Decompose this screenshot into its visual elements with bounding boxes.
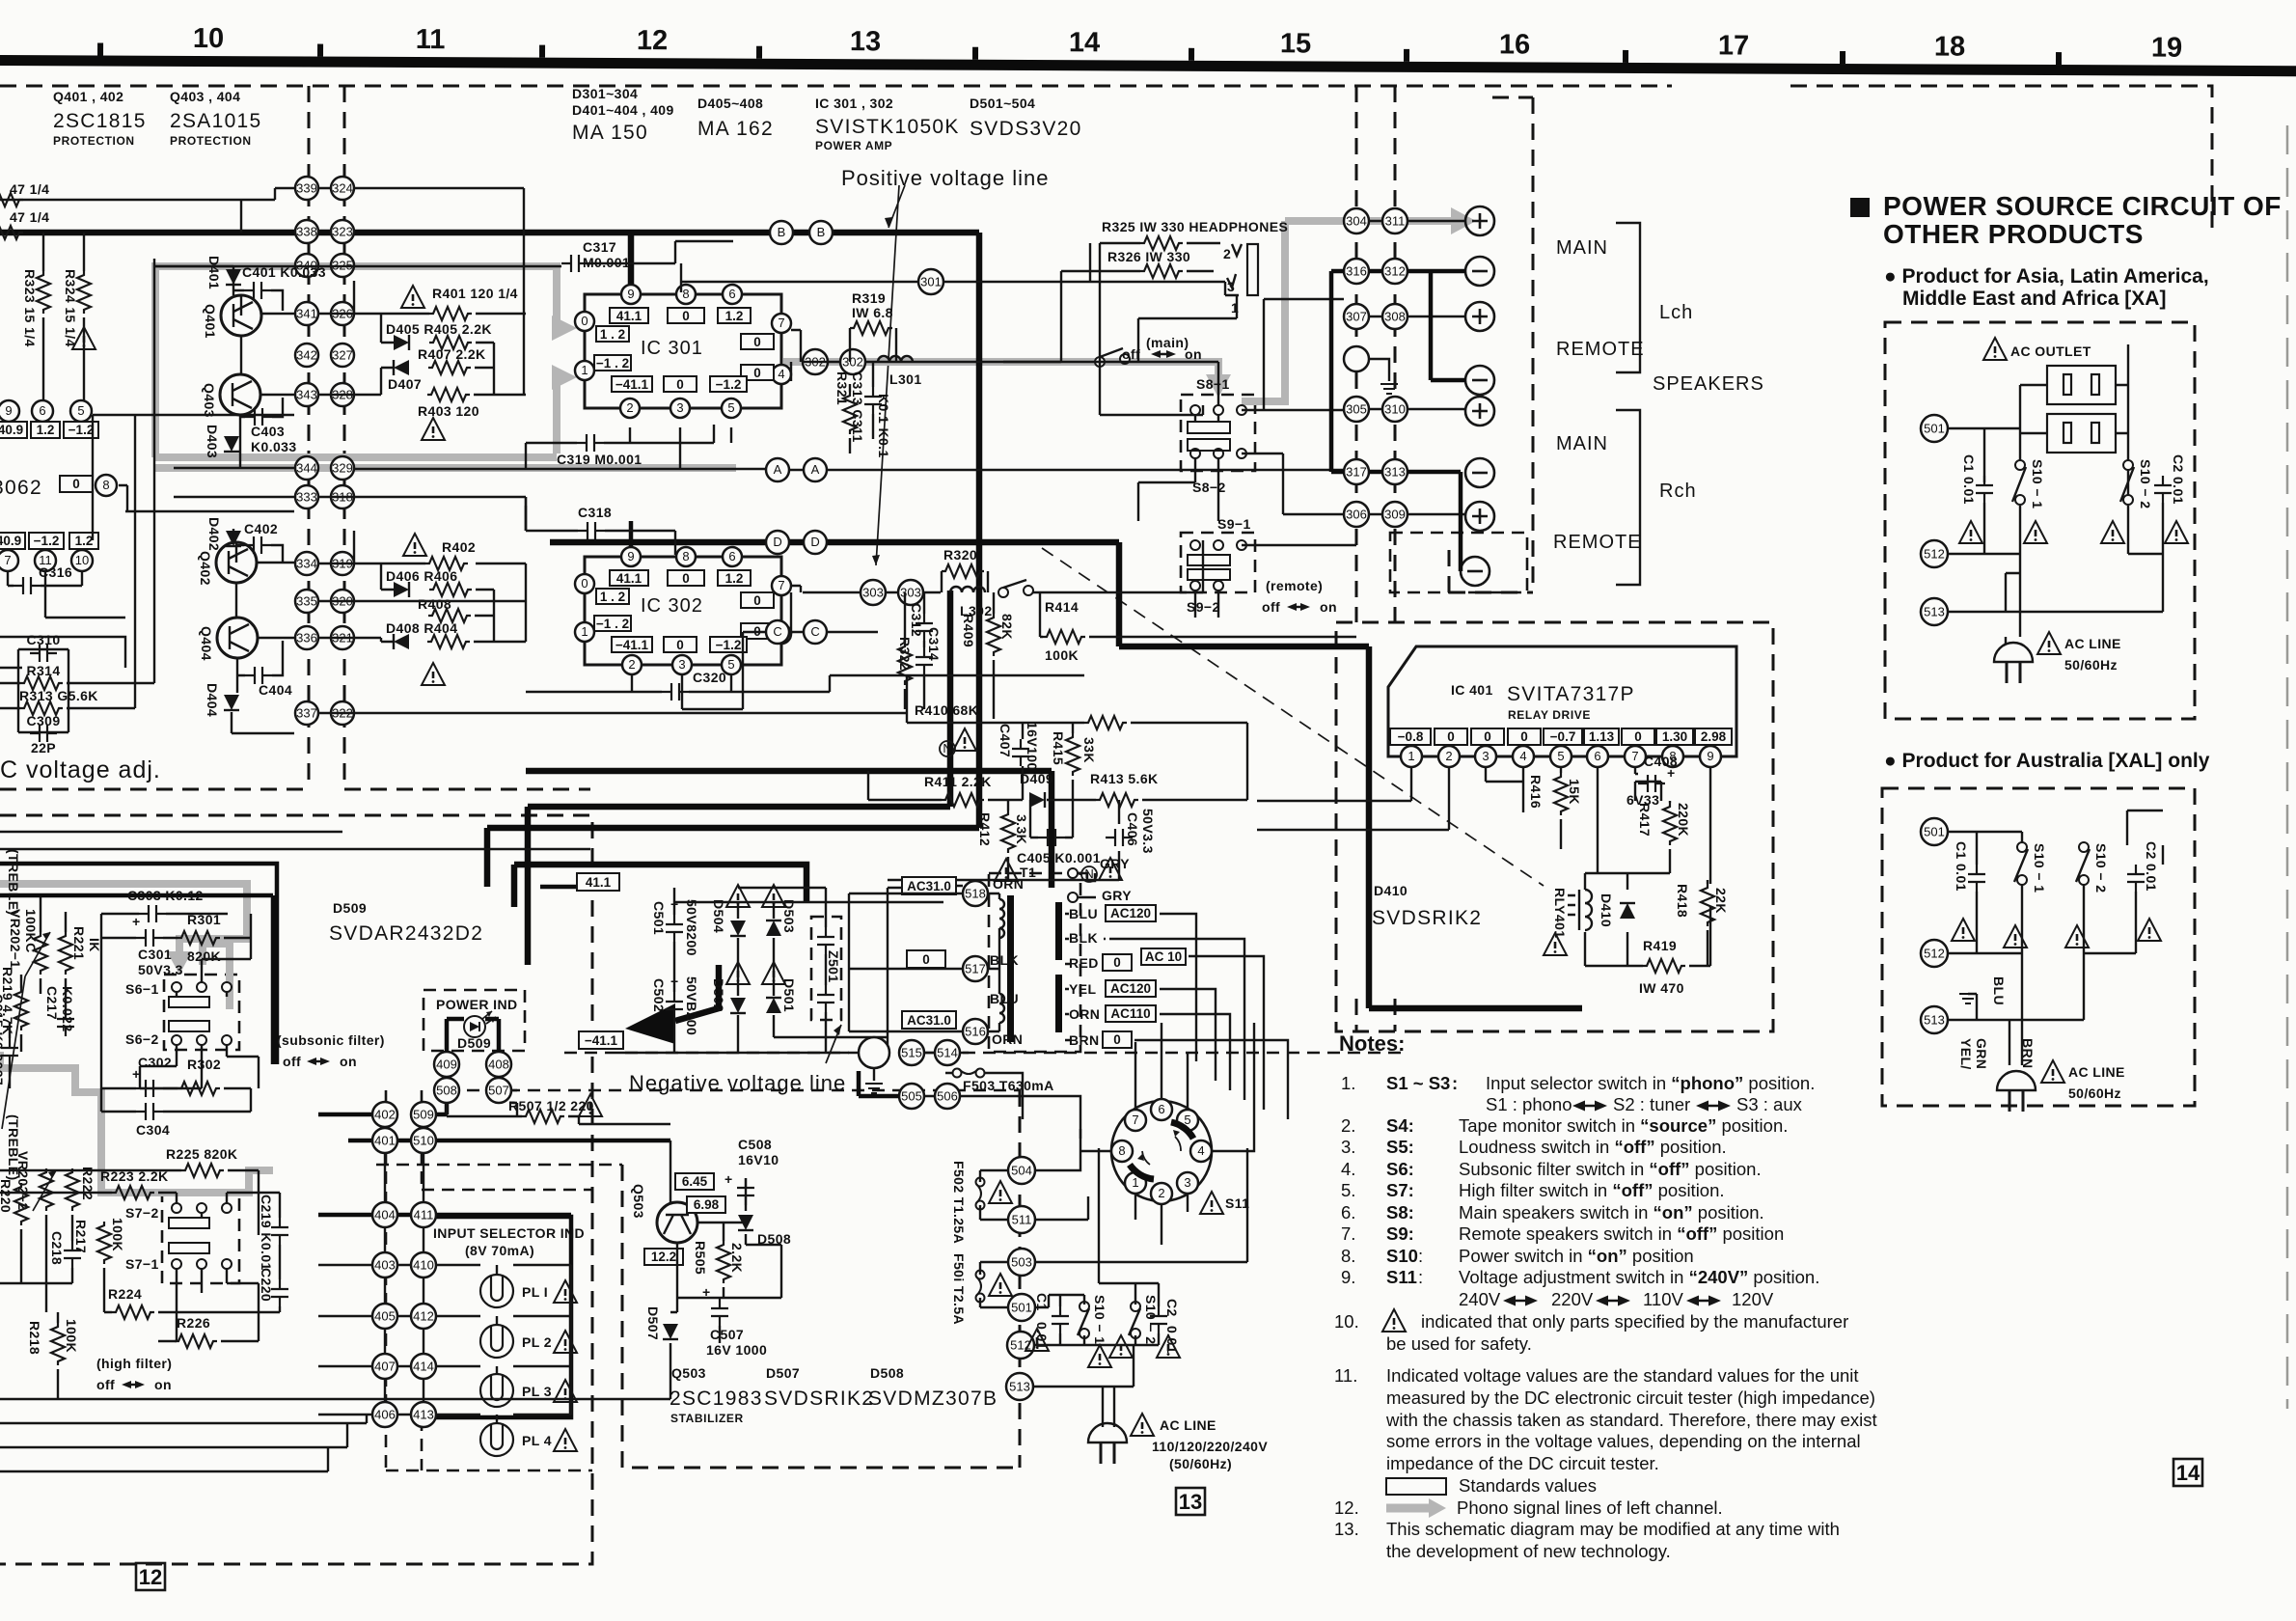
boxed -41.1 xyxy=(612,637,652,652)
dashed power supply block left/bottom xyxy=(622,1165,1020,1468)
svg-text:R409: R409 xyxy=(961,614,976,647)
svg-text:339: 339 xyxy=(296,181,317,196)
node 517 xyxy=(963,956,988,981)
svg-text:S10 − 2: S10 − 2 xyxy=(1143,1295,1159,1344)
node 412 xyxy=(411,1304,436,1329)
svg-text:● Product for Asia, Latin Amer: ● Product for Asia, Latin America, xyxy=(1884,265,2209,288)
svg-text:9: 9 xyxy=(627,287,634,301)
svg-text:6.: 6. xyxy=(1341,1202,1355,1223)
svg-text:+: + xyxy=(132,914,141,929)
resistor R405 xyxy=(429,336,472,349)
pin 1 xyxy=(1401,746,1422,767)
svg-text:Rch: Rch xyxy=(1659,481,1697,502)
svg-text:(remote): (remote) xyxy=(1266,578,1323,593)
ground xal xyxy=(1968,994,1977,1020)
lamp PL4 xyxy=(480,1423,552,1456)
boxed 41.1 xyxy=(577,873,619,891)
wires fuse column xyxy=(980,1129,1247,1307)
svg-text:338: 338 xyxy=(296,225,317,239)
svg-text:303: 303 xyxy=(862,586,884,600)
diode D501 xyxy=(766,978,797,1013)
resistor R226 xyxy=(175,1315,217,1348)
boxed AC31.0 b xyxy=(902,1011,956,1029)
bracket Rch xyxy=(1616,410,1640,585)
thick 41.1 stub xyxy=(540,885,617,890)
warning D501 xyxy=(762,962,785,984)
wires secondary to selector xyxy=(1065,914,1288,1119)
transformer T1 windings xyxy=(990,876,1062,1047)
node 303b xyxy=(898,580,923,605)
svg-text:S11: S11 xyxy=(1225,1195,1249,1211)
svg-text:3.3K: 3.3K xyxy=(1014,814,1029,844)
capacitor C218 xyxy=(49,1231,81,1268)
svg-text:Q503: Q503 xyxy=(671,1365,706,1381)
svg-text:C302: C302 xyxy=(138,1055,172,1070)
resistor R413 xyxy=(1090,771,1159,807)
svg-text:YEL/: YEL/ xyxy=(1958,1038,1974,1070)
svg-text:B: B xyxy=(817,225,826,239)
capacitor C401 xyxy=(242,264,326,299)
warning PL3 xyxy=(554,1380,577,1402)
svg-text:S6−2: S6−2 xyxy=(125,1031,159,1047)
node 303 xyxy=(861,580,886,605)
svg-text:AC120: AC120 xyxy=(1110,906,1151,920)
svg-text:R221: R221 xyxy=(71,926,87,960)
capacitor C318 xyxy=(578,505,612,539)
minus terminal Lch main xyxy=(1465,257,1494,286)
svg-text:0: 0 xyxy=(753,366,761,380)
node 503 xyxy=(1008,1249,1035,1276)
switch S10-1 xa xyxy=(2012,459,2045,508)
svg-text:D401~404 , 409: D401~404 , 409 xyxy=(572,102,674,118)
switch S7-2 contacts xyxy=(169,1203,232,1228)
resistor R403 xyxy=(418,388,479,419)
svg-text:7.: 7. xyxy=(1341,1223,1355,1244)
svg-text:Q403 , 404: Q403 , 404 xyxy=(170,89,240,104)
wire 301 row xyxy=(681,243,1239,295)
svg-text:GRN: GRN xyxy=(1974,1038,1989,1069)
svg-text:D407: D407 xyxy=(388,376,422,392)
svg-text:501: 501 xyxy=(1011,1301,1032,1315)
svg-text:R407 2.2K: R407 2.2K xyxy=(418,346,486,362)
wires 505 row xyxy=(859,1071,899,1096)
plus terminal Lch main xyxy=(1465,206,1494,235)
note warning triangle xyxy=(1382,1309,1406,1332)
svg-text:R313 G5.6K: R313 G5.6K xyxy=(19,688,98,703)
svg-text:MAIN: MAIN xyxy=(1556,237,1608,259)
svg-text:GRY: GRY xyxy=(1100,856,1130,871)
svg-text:C501: C501 xyxy=(651,901,667,935)
pin 6 xyxy=(723,285,742,304)
pins row circles 9 6 5 xyxy=(0,400,19,422)
resistor R414 xyxy=(1043,599,1085,663)
node 322 xyxy=(331,701,354,725)
svg-text:344: 344 xyxy=(296,461,317,476)
node 302b xyxy=(840,349,865,374)
node 514 xyxy=(935,1040,960,1065)
wire left top xyxy=(0,188,296,411)
boxed 0 bottom xyxy=(664,376,697,392)
thick feed to IC302 pin9 xyxy=(629,521,634,555)
dashed box input selector indicator xyxy=(386,1190,592,1470)
svg-text:4.: 4. xyxy=(1341,1159,1355,1179)
svg-text:R402: R402 xyxy=(442,539,476,555)
svg-text:50V3.3: 50V3.3 xyxy=(1140,809,1156,854)
RC block C310 R314 R313 C309 xyxy=(18,632,98,756)
thick negative nest mid xyxy=(487,825,979,832)
svg-text:C320: C320 xyxy=(693,670,726,685)
pointer negative xyxy=(826,1025,841,1063)
svg-text:C507: C507 xyxy=(710,1327,744,1342)
dashed vertical speaker block inner xyxy=(1449,97,1533,592)
svg-text:16V10: 16V10 xyxy=(738,1152,779,1168)
svg-text:PL 4: PL 4 xyxy=(522,1433,552,1448)
svg-text:MAIN: MAIN xyxy=(1556,433,1608,454)
svg-text:3: 3 xyxy=(678,657,685,672)
boxed 0 xyxy=(668,570,704,586)
warning AC OUTLET xyxy=(1983,338,2007,360)
phono arrow into IC301 pin0 xyxy=(552,316,577,341)
pin 6 xyxy=(723,547,742,566)
capacitor C406 xyxy=(1106,809,1156,854)
resistor R301 xyxy=(178,912,221,964)
svg-text:Indicated voltage values are t: Indicated voltage values are the standar… xyxy=(1386,1365,1859,1386)
svg-text:100K: 100K xyxy=(110,1218,125,1251)
svg-text:317: 317 xyxy=(1346,465,1367,480)
svg-text:10: 10 xyxy=(193,23,224,54)
switch S7-1 contacts xyxy=(169,1243,232,1269)
node 313 xyxy=(1382,459,1408,484)
remote switch contacts xyxy=(998,580,1033,597)
boxed 41.1 xyxy=(610,308,648,323)
svg-text:D507: D507 xyxy=(645,1306,661,1340)
svg-text:D: D xyxy=(810,535,819,549)
thick negative nest inner xyxy=(514,865,806,902)
svg-text:C: C xyxy=(810,624,819,639)
warning PL2 xyxy=(554,1331,577,1353)
capacitor C302 xyxy=(132,1055,172,1097)
svg-text:404: 404 xyxy=(374,1208,396,1223)
wire C319 row xyxy=(526,425,731,470)
svg-text:6.98: 6.98 xyxy=(694,1197,720,1212)
capacitor C502 xyxy=(651,974,699,1035)
page number 12 xyxy=(136,1563,165,1590)
svg-text:C407: C407 xyxy=(998,724,1013,757)
node 309 xyxy=(1382,502,1408,527)
svg-text:7: 7 xyxy=(778,316,784,330)
svg-text:504: 504 xyxy=(1011,1164,1032,1178)
dashed box XA product xyxy=(1885,322,2195,719)
diode D409 xyxy=(1020,771,1053,808)
svg-text:D402: D402 xyxy=(206,517,222,551)
svg-text:S9:: S9: xyxy=(1386,1223,1414,1244)
boxed 1.2 row2 xyxy=(69,533,98,549)
svg-text:C301: C301 xyxy=(138,947,172,962)
svg-text:VR202−1: VR202−1 xyxy=(8,909,23,969)
diode D403 xyxy=(205,425,239,458)
switch S8-1 contacts xyxy=(1188,405,1246,458)
capacitor C403 xyxy=(245,408,297,454)
svg-text:C2 0.01: C2 0.01 xyxy=(2144,841,2159,892)
svg-text:with the chassis taken as stan: with the chassis taken as standard. Ther… xyxy=(1385,1410,1877,1430)
svg-text:110V: 110V xyxy=(1643,1289,1683,1309)
node 318 xyxy=(331,485,354,508)
svg-text:C310: C310 xyxy=(26,632,60,647)
svg-text:305: 305 xyxy=(1346,402,1367,417)
thick D rail xyxy=(526,542,1582,1008)
svg-text:513: 513 xyxy=(1924,605,1945,619)
fuse F503 xyxy=(953,1069,985,1078)
svg-text:335: 335 xyxy=(296,594,317,609)
warning N circle 2 xyxy=(1081,858,1122,882)
svg-text:511: 511 xyxy=(1012,1213,1032,1227)
svg-text:Phono signal lines of left cha: Phono signal lines of left channel. xyxy=(1457,1497,1723,1518)
wires AC switch area xyxy=(1033,1148,1159,1414)
svg-text:impedance of the DC circuit te: impedance of the DC circuit tester. xyxy=(1386,1453,1659,1473)
svg-text:RELAY DRIVE: RELAY DRIVE xyxy=(1508,708,1591,722)
svg-text:RLY401: RLY401 xyxy=(1552,888,1568,938)
pin 8 xyxy=(1662,746,1683,767)
svg-text:Notes:: Notes: xyxy=(1339,1031,1405,1056)
svg-text:12: 12 xyxy=(637,25,668,56)
svg-text:MA 150: MA 150 xyxy=(572,122,648,144)
dashed box S7 xyxy=(162,1195,239,1283)
pin 4 xyxy=(772,365,791,384)
node 512 xyxy=(1007,1332,1034,1359)
svg-text:A: A xyxy=(811,462,820,477)
svg-text:2.2K: 2.2K xyxy=(729,1243,745,1273)
label D405-408 MA162 xyxy=(697,96,774,140)
svg-text:ORN: ORN xyxy=(993,876,1024,892)
svg-text:L301: L301 xyxy=(889,371,922,387)
node 507 xyxy=(486,1078,511,1103)
warning D504 xyxy=(726,885,750,907)
svg-text:D408 R404: D408 R404 xyxy=(386,620,457,636)
svg-text:9.: 9. xyxy=(1341,1267,1355,1287)
svg-text:5: 5 xyxy=(77,403,84,418)
svg-text:R505: R505 xyxy=(693,1241,708,1275)
dashed top border of amp board xyxy=(0,85,1672,88)
capacitor C317 xyxy=(561,239,630,272)
svg-text:50/60Hz: 50/60Hz xyxy=(2064,657,2118,673)
resistor R221 vertical xyxy=(59,926,102,975)
svg-text:S8−1: S8−1 xyxy=(1196,376,1230,392)
svg-text:D405 R405 2.2K: D405 R405 2.2K xyxy=(386,321,492,337)
svg-text:0: 0 xyxy=(1484,729,1491,744)
svg-text:AC31.0: AC31.0 xyxy=(907,1013,951,1028)
warning AC xyxy=(1131,1414,1154,1436)
svg-text:6: 6 xyxy=(728,287,735,301)
pin 2 xyxy=(1438,746,1460,767)
svg-text:505: 505 xyxy=(901,1089,922,1104)
wires R507 xyxy=(447,1090,670,1124)
svg-text:IC 301 , 302: IC 301 , 302 xyxy=(815,96,893,111)
svg-text:K0.033: K0.033 xyxy=(251,439,297,454)
svg-text:R224: R224 xyxy=(108,1286,142,1302)
svg-text:307: 307 xyxy=(1346,310,1367,324)
node 407 xyxy=(372,1354,397,1379)
phono arrow down to S8-1 xyxy=(1206,374,1231,398)
wires C304 xyxy=(101,938,251,1112)
negative voltage big arrow xyxy=(625,1003,675,1044)
boxed 40.9 row2 xyxy=(0,533,25,549)
svg-text:R319: R319 xyxy=(852,290,886,306)
svg-text:SVDAR2432D2: SVDAR2432D2 xyxy=(329,922,483,945)
node 509 xyxy=(411,1102,436,1127)
warning R507 xyxy=(579,1094,602,1116)
warning under R324 xyxy=(72,327,96,349)
svg-text:IW 6.8: IW 6.8 xyxy=(852,305,893,320)
svg-text:8: 8 xyxy=(102,478,109,492)
svg-text:R226: R226 xyxy=(177,1315,210,1331)
svg-text:515: 515 xyxy=(901,1046,922,1060)
svg-text:ORN: ORN xyxy=(1069,1006,1100,1022)
capacitor C407 xyxy=(998,722,1040,771)
lamp PL3 xyxy=(480,1374,552,1407)
boxed 0 xyxy=(1435,728,1467,745)
long wires left area xyxy=(0,415,590,849)
headphone resistor R326 xyxy=(1107,249,1190,278)
svg-text:Subsonic filter switch in “off: Subsonic filter switch in “off” position… xyxy=(1459,1159,1762,1179)
svg-text:(main): (main) xyxy=(1146,335,1189,350)
svg-text:304: 304 xyxy=(1346,214,1367,229)
boxed 1.2 xyxy=(31,422,60,438)
svg-text:K0.1 K0.1: K0.1 K0.1 xyxy=(876,394,891,458)
dashed under 510 row xyxy=(376,1164,622,1167)
relay RLY401 xyxy=(1552,888,1592,938)
node D2 xyxy=(804,531,827,554)
wire R414 row xyxy=(994,592,1356,719)
dashed box S9-1 xyxy=(1181,533,1255,592)
wires R412 net xyxy=(888,800,1119,880)
svg-text:240V: 240V xyxy=(1459,1289,1501,1309)
wire C row xyxy=(743,632,878,709)
svg-text:SVDSRIK2: SVDSRIK2 xyxy=(1372,907,1482,929)
svg-text:R324 15 1/4: R324 15 1/4 xyxy=(63,269,78,347)
capacitor C501 xyxy=(651,896,699,956)
warning F501 xyxy=(989,1274,1012,1296)
diode D407 xyxy=(388,360,422,392)
svg-text:50V8200: 50V8200 xyxy=(684,899,699,956)
svg-text:C303 K0.12: C303 K0.12 xyxy=(127,888,204,903)
svg-text:S10 − 1: S10 − 1 xyxy=(2030,459,2045,508)
transistor Q503 xyxy=(631,1184,697,1243)
svg-text:2: 2 xyxy=(1158,1186,1164,1200)
svg-text:D410: D410 xyxy=(1374,883,1408,898)
dashed verticals speaker relay columns xyxy=(1356,86,1395,1031)
node 508 xyxy=(434,1078,459,1103)
svg-text:Voltage adjustment switch in “: Voltage adjustment switch in “240V” posi… xyxy=(1459,1267,1819,1287)
wires resistor ladder 2 xyxy=(319,497,907,713)
wires lamp returns xyxy=(513,1265,571,1415)
capacitor C319 xyxy=(557,434,642,467)
svg-text:REMOTE: REMOTE xyxy=(1553,532,1642,553)
capacitor C320 xyxy=(662,670,726,701)
fuse F501 xyxy=(951,1253,985,1325)
svg-text:513: 513 xyxy=(1924,1013,1945,1028)
main switch contacts xyxy=(1095,348,1130,367)
svg-text:INPUT SELECTOR IND: INPUT SELECTOR IND xyxy=(433,1225,585,1241)
svg-text:D403: D403 xyxy=(205,425,220,458)
phono line high filter run xyxy=(0,1052,273,1193)
pin 7 xyxy=(772,576,791,595)
svg-text:S1 ~ S3: S1 ~ S3 xyxy=(1386,1073,1450,1093)
resistor R408 xyxy=(428,609,471,622)
wires left tone xyxy=(10,897,66,1088)
svg-text:−41.1: −41.1 xyxy=(615,638,649,652)
svg-text:R222: R222 xyxy=(80,1167,96,1200)
svg-text:−1.2: −1.2 xyxy=(716,377,742,392)
wire to S9 xyxy=(1033,540,1203,592)
op-amp IC301 body xyxy=(585,294,781,408)
node 501 xa xyxy=(1921,415,1948,442)
svg-text:R413 5.6K: R413 5.6K xyxy=(1090,771,1159,786)
node 329 xyxy=(331,456,354,480)
svg-text:some errors in the voltage val: some errors in the voltage values, depen… xyxy=(1386,1431,1861,1451)
svg-text:3: 3 xyxy=(1482,749,1489,763)
resistor R401 xyxy=(429,286,518,320)
ruler bar xyxy=(0,55,2296,76)
capacitor C1 xyxy=(1034,1293,1069,1350)
minus terminal Rch remote xyxy=(1461,557,1490,586)
pin 4 xyxy=(1513,746,1534,767)
svg-text:7: 7 xyxy=(4,553,11,567)
svg-text:16V100: 16V100 xyxy=(1025,722,1040,771)
svg-text:9: 9 xyxy=(627,549,634,563)
svg-text:off: off xyxy=(96,1377,115,1392)
svg-text:0: 0 xyxy=(922,952,930,967)
svg-text:510: 510 xyxy=(413,1134,434,1148)
svg-text::: : xyxy=(1452,1073,1458,1093)
AC outlet lower xyxy=(2047,414,2116,453)
capacitor C507 xyxy=(702,1284,767,1358)
node 408 xyxy=(486,1052,511,1077)
pin 3 xyxy=(1475,746,1496,767)
note arrows xyxy=(1503,1101,1731,1306)
node A xyxy=(766,458,789,481)
svg-text:1.13: 1.13 xyxy=(1589,729,1615,744)
svg-text:BLU: BLU xyxy=(990,991,1019,1006)
AC plug xyxy=(1088,1423,1127,1464)
svg-text:Positive voltage line: Positive voltage line xyxy=(841,166,1049,190)
thick phono board border xyxy=(0,864,277,1064)
thick line input selector feed xyxy=(318,1078,670,1215)
dashed top of tone board xyxy=(0,815,592,1564)
svg-text:14: 14 xyxy=(1069,27,1100,58)
wires plug xyxy=(1103,1414,1114,1427)
svg-text:D406 R406: D406 R406 xyxy=(386,568,457,584)
svg-text:PROTECTION: PROTECTION xyxy=(53,134,135,148)
svg-text:−0.7: −0.7 xyxy=(1550,729,1576,744)
boxed -1.2 bottom xyxy=(710,376,747,392)
resistor R404 xyxy=(427,635,470,648)
svg-text:off: off xyxy=(283,1054,301,1069)
node A2 xyxy=(804,458,827,481)
svg-text:D404: D404 xyxy=(205,683,220,717)
svg-text:1 . 2: 1 . 2 xyxy=(600,590,625,604)
boxed -1.2 bottom xyxy=(710,637,747,652)
svg-text:D502: D502 xyxy=(711,978,726,1012)
svg-text:S1 : phono: S1 : phono xyxy=(1486,1094,1572,1114)
node 316 xyxy=(1344,259,1369,284)
dashed box S6 xyxy=(164,975,239,1050)
node 513 xa xyxy=(1921,598,1948,625)
resistor R224 xyxy=(108,1286,154,1319)
switch S10-2 xal xyxy=(2076,842,2109,893)
switch S10-2 xyxy=(1129,1295,1159,1344)
resistor R411 xyxy=(924,774,992,807)
ground below xyxy=(873,1068,875,1081)
